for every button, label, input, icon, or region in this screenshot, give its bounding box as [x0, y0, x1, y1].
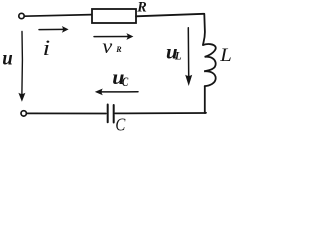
- label uL: [166, 39, 182, 63]
- label C: [115, 116, 125, 135]
- wire (top, terminal to resistor): [25, 15, 92, 17]
- label L: [219, 44, 232, 65]
- arrow i (current, pointing right): [39, 26, 69, 33]
- svg-text:C: C: [122, 76, 129, 90]
- svg-text:v: v: [102, 35, 112, 58]
- label R: [136, 0, 147, 16]
- svg-text:L: L: [219, 44, 232, 65]
- svg-text:C: C: [115, 116, 125, 132]
- capacitor C: [108, 105, 114, 123]
- svg-text:R: R: [115, 45, 122, 54]
- svg-text:i: i: [43, 36, 51, 60]
- terminal (bottom-left): [21, 111, 26, 116]
- wire (right side, inductor to bottom corner): [205, 86, 206, 113]
- resistor R: [92, 9, 136, 23]
- label u: [2, 46, 13, 69]
- wire (right side, corner down to inductor): [203, 14, 205, 45]
- label i: [43, 36, 51, 60]
- arrow u (source voltage, pointing down): [18, 32, 25, 102]
- label vR: [102, 35, 122, 58]
- svg-text:R: R: [136, 0, 147, 16]
- wire (bottom, corner to capacitor): [115, 112, 205, 114]
- label uC: [112, 66, 129, 90]
- wire (resistor to top-right corner): [136, 14, 204, 16]
- inductor L: [203, 44, 216, 86]
- terminal (top-left): [19, 13, 24, 18]
- arrow vR (resistor voltage, pointing right): [94, 33, 133, 40]
- svg-text:L: L: [174, 50, 182, 62]
- svg-text:u: u: [2, 46, 13, 69]
- arrow uC (capacitor voltage, pointing left): [95, 89, 138, 96]
- wire (bottom, capacitor to terminal): [27, 112, 106, 114]
- arrow uL (inductor voltage, pointing down): [185, 28, 192, 86]
